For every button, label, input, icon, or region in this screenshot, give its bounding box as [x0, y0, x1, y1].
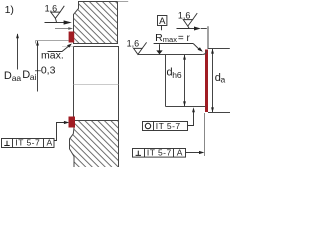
svg-text:A: A	[159, 16, 166, 27]
svg-text:1,6: 1,6	[178, 11, 191, 21]
svg-text:aa: aa	[12, 73, 22, 83]
svg-text:–0,3: –0,3	[35, 65, 56, 77]
svg-text:IT 5-7: IT 5-7	[15, 138, 40, 148]
svg-text:IT 5-7: IT 5-7	[147, 148, 172, 158]
svg-text:A: A	[177, 148, 183, 158]
svg-text:IT 5-7: IT 5-7	[156, 121, 181, 131]
svg-text:D: D	[4, 70, 12, 82]
svg-text:max: max	[163, 35, 177, 44]
svg-text:a: a	[221, 74, 226, 84]
svg-text:h6: h6	[172, 70, 182, 80]
svg-text:= r: = r	[178, 33, 191, 44]
svg-text:1,6: 1,6	[127, 39, 140, 49]
svg-text:1): 1)	[5, 4, 14, 16]
svg-text:A: A	[47, 138, 53, 148]
